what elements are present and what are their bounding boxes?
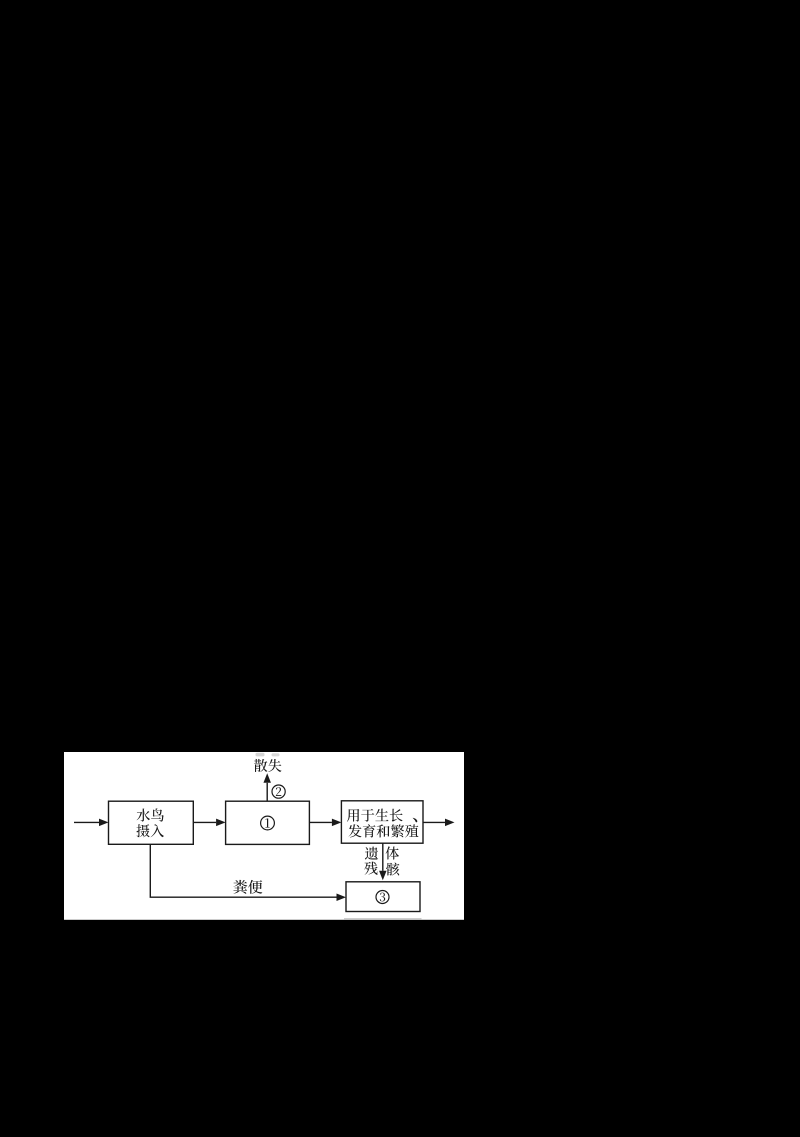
circled digit ② beside up arrow — [272, 785, 285, 798]
label 骸 — [386, 863, 399, 876]
arrowhead: 粪便 path into box ③ — [337, 893, 347, 901]
arrow: box ① up to 散失 — [263, 773, 271, 801]
ideographic comma 、 — [413, 818, 418, 823]
arrow: box ① to 用于生长发育和繁殖 box — [309, 819, 341, 827]
box text 发育和繁殖 — [348, 824, 418, 837]
circled digit ③ in bottom box — [376, 891, 389, 904]
box ③ — [346, 882, 420, 912]
box 用于生长、发育和繁殖 — [341, 801, 423, 843]
arrow: energy input into 水鸟摄入 box — [74, 819, 109, 827]
scan smudge above 散失 — [256, 753, 265, 757]
box 水鸟摄入 — [109, 801, 194, 844]
box text 水鸟 — [137, 808, 164, 821]
scan smudge above 失 — [272, 753, 280, 756]
arrow: 遗体残骸 down into box ③ — [379, 843, 387, 880]
arrow: output from 用于生长发育和繁殖 box — [423, 819, 455, 827]
box ① — [226, 801, 310, 844]
box text 用于生长 — [347, 809, 403, 822]
arrow: 水鸟摄入 to box ① — [193, 819, 225, 827]
circled digit ① in middle box — [261, 816, 275, 830]
label 体 — [386, 846, 399, 859]
faint scan line under box ③ — [344, 918, 422, 920]
label 散失 (heat loss) — [254, 759, 282, 772]
label 遗 — [365, 847, 378, 860]
wire: 粪便 path from 水鸟摄入 box down then right — [150, 844, 336, 897]
label 残 — [364, 862, 377, 875]
label 粪便 (feces) — [233, 880, 262, 894]
white diagram panel — [64, 752, 464, 920]
box text 摄入 — [136, 824, 164, 837]
